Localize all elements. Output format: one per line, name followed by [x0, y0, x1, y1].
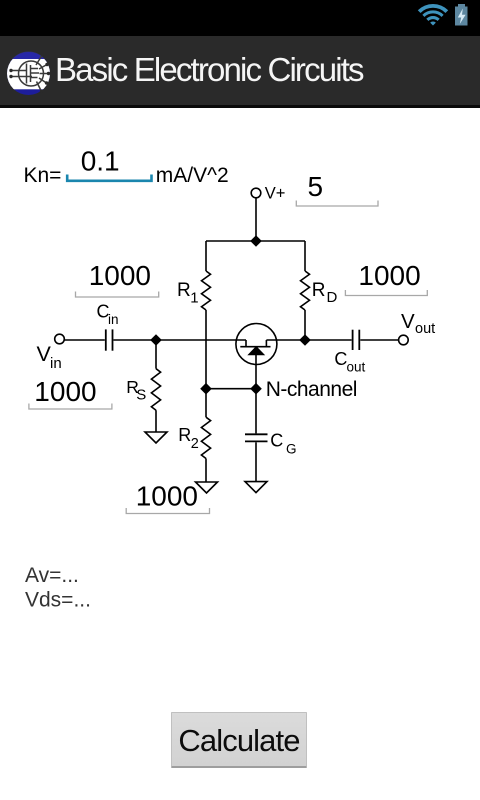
- label Vout: [401, 310, 435, 337]
- capacitor CG: [245, 389, 268, 482]
- svg-text:D: D: [327, 289, 338, 306]
- svg-text:0.1: 0.1: [81, 146, 120, 177]
- wire Vin to Cin: [65, 339, 105, 341]
- junction gate-CG node: [250, 383, 262, 395]
- status bar: [0, 0, 480, 36]
- svg-text:C: C: [270, 431, 283, 451]
- label R2: [178, 425, 199, 452]
- wire Cout to Vout: [360, 339, 398, 341]
- action bar: [0, 36, 480, 108]
- ground CG: [245, 482, 267, 493]
- svg-text:S: S: [136, 387, 146, 404]
- svg-text:N-channel: N-channel: [266, 378, 357, 401]
- svg-text:1000: 1000: [358, 260, 420, 291]
- capacitor Cin: [106, 329, 113, 350]
- svg-text:G: G: [286, 442, 297, 457]
- svg-text:1: 1: [190, 290, 198, 307]
- node Vout terminal: [399, 335, 409, 345]
- app icon: [5, 48, 53, 96]
- label Cout: [334, 349, 365, 375]
- svg-text:Av=...: Av=...: [25, 564, 79, 587]
- svg-text:Vds=...: Vds=...: [25, 589, 91, 612]
- junction RD / output: [299, 334, 311, 346]
- transistor Q1 N-channel MOSFET: [236, 324, 277, 389]
- svg-text:R: R: [177, 280, 191, 301]
- input field R2 value 1000: [126, 481, 209, 514]
- svg-text:C: C: [334, 349, 347, 369]
- svg-text:V: V: [401, 310, 415, 333]
- wire gate node horizontal: [206, 388, 256, 390]
- input field V+ value 5: [296, 171, 378, 206]
- resistor R2: [201, 389, 210, 482]
- resistor RD: [301, 241, 310, 340]
- svg-text:1000: 1000: [34, 376, 96, 407]
- label RD: [312, 280, 338, 306]
- ground R2: [196, 482, 218, 493]
- svg-text:R: R: [178, 425, 191, 445]
- svg-text:out: out: [347, 360, 366, 375]
- svg-text:R: R: [312, 280, 326, 301]
- svg-text:out: out: [415, 321, 435, 337]
- node Vin terminal: [55, 334, 65, 344]
- input field R1 value 1000: [76, 260, 159, 297]
- wire Cin to MOSFET gate-left lead: [114, 339, 247, 341]
- wire MOSFET right lead to output node: [266, 339, 351, 341]
- content: [0, 0, 480, 1]
- input field RS value 1000: [29, 376, 112, 409]
- svg-text:in: in: [50, 355, 62, 372]
- wire top rail: [206, 240, 305, 242]
- ground RS: [145, 432, 167, 443]
- junction R1-R2 node: [200, 383, 212, 395]
- svg-text:in: in: [108, 312, 119, 327]
- node V+ terminal: [251, 188, 261, 198]
- label Cin: [97, 302, 119, 328]
- wifi icon: [416, 4, 450, 28]
- svg-text:Kn=: Kn=: [24, 164, 62, 187]
- button Calculate: [171, 712, 307, 768]
- junction input node / RS: [150, 334, 162, 346]
- svg-text:1000: 1000: [89, 260, 151, 291]
- label CG: [270, 431, 296, 457]
- svg-text:2: 2: [191, 436, 199, 452]
- label RS: [126, 377, 146, 404]
- resistor R1: [202, 241, 211, 389]
- svg-text:mA/V^2: mA/V^2: [156, 164, 229, 187]
- label R1: [177, 280, 199, 307]
- svg-text:1000: 1000: [136, 481, 198, 512]
- svg-text:5: 5: [308, 171, 324, 202]
- resistor RS: [151, 340, 160, 432]
- wire V+ to top rail: [255, 198, 257, 241]
- input field Kn value 0.1: [67, 146, 151, 181]
- svg-text:V+: V+: [265, 184, 286, 202]
- input field RD value 1000: [345, 260, 427, 296]
- label Vin: [37, 342, 62, 372]
- junction top rail / V+: [250, 235, 262, 247]
- app title: [55, 50, 363, 90]
- battery charging icon: [450, 1, 474, 29]
- capacitor Cout: [353, 330, 360, 350]
